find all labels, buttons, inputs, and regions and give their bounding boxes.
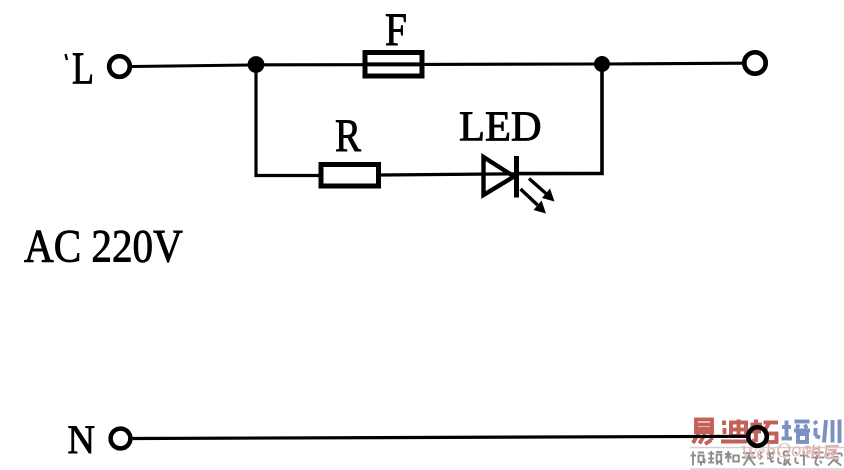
fuse F (363, 4, 424, 76)
svg-text:N: N (68, 418, 95, 462)
terminal right top (744, 52, 765, 73)
terminal L (109, 56, 130, 77)
LED light arrow 2 (521, 189, 547, 214)
wire left branch vertical (256, 65, 320, 176)
watermark logo text "yi di tuo" (red) (693, 420, 714, 445)
wire L to left junction (132, 65, 250, 67)
svg-text:LED: LED (459, 104, 542, 151)
watermark logo text "pei xun" (blue) (782, 421, 811, 443)
LED cathode bar (514, 156, 519, 198)
svg-text:F: F (385, 4, 407, 56)
node L label (66, 44, 94, 94)
watermark caption "RF and antenna design experts" (gray) (691, 451, 842, 466)
watermark rule line (690, 468, 844, 470)
watermark "wei ku" (pink) (807, 445, 820, 458)
node junction right (594, 56, 610, 72)
svg-text:L: L (72, 44, 94, 94)
terminal N (111, 429, 131, 449)
wire junction to right terminal (608, 62, 743, 66)
wire fuse to right junction (425, 62, 597, 66)
terminal right bottom (748, 427, 767, 446)
wire junction to fuse (262, 63, 364, 66)
watermark rule line (690, 447, 844, 449)
resistor R (321, 111, 379, 186)
LED diode triangle (484, 157, 515, 195)
wire LED to right vertical, up to junction (518, 64, 602, 174)
wire N (133, 436, 748, 438)
LED light arrow 1 (529, 179, 555, 202)
wire resistor to LED (381, 174, 516, 175)
svg-text:R: R (335, 111, 361, 162)
node junction left (248, 56, 265, 73)
svg-text:AC 220V: AC 220V (24, 221, 183, 272)
